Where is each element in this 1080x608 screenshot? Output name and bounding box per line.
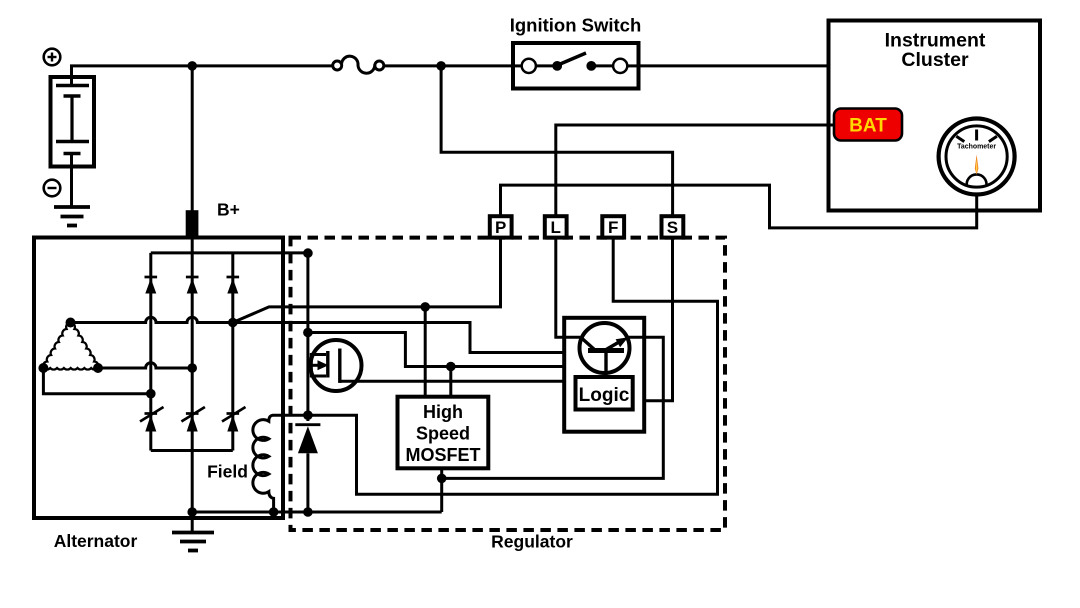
B+ terminal block (186, 210, 199, 238)
phase 2 wire with hop over leg 1 (98, 363, 192, 368)
B+ rail inside regulator (306, 253, 309, 421)
wire S terminal to logic block (644, 238, 672, 401)
phase 3 wire (43, 368, 150, 394)
wire B+ block to rectifier top rail (191, 237, 194, 253)
svg-text:Ignition Switch: Ignition Switch (510, 15, 642, 36)
terminal L (545, 216, 567, 237)
ignition switch SW1 (513, 43, 639, 89)
wire S sense: junction to S terminal (441, 66, 672, 216)
BAT warning lamp (834, 109, 902, 141)
diode D4 (negative avalanche, leg 1) (140, 407, 164, 432)
stator delta winding side 2 (top-right) (71, 323, 99, 369)
svg-text:P: P (495, 218, 506, 237)
field coil L1 (253, 415, 308, 512)
stator delta winding side 3 (bottom) (43, 368, 98, 370)
node: sense tap junction (436, 61, 446, 71)
battery negative terminal symbol (44, 180, 61, 197)
node: phase 2 junction on leg 2 (187, 363, 197, 373)
terminal S (662, 216, 684, 237)
svg-text:Tachometer: Tachometer (957, 142, 996, 151)
wire ground rail up to driver block (440, 468, 443, 512)
wire MOSFET source to logic block (340, 380, 564, 383)
rectifier leg 2 (191, 253, 194, 451)
high speed MOSFET driver block U1 (398, 397, 489, 469)
svg-text:High: High (423, 402, 463, 422)
emitter wire transistor to gate junction (442, 337, 664, 478)
node: delta top vertex (66, 318, 76, 328)
wire battery positive to fusible link (72, 66, 332, 86)
diode D1 (positive, leg 1) (145, 277, 158, 294)
node: phase 3 junction on leg 1 (146, 389, 156, 399)
F monitor wire: F terminal to field junction (308, 238, 718, 495)
svg-text:B+: B+ (217, 200, 240, 220)
node: phase 1 junction on leg 3 (228, 318, 238, 328)
tachometer gauge (939, 119, 1015, 195)
logic box (576, 377, 633, 410)
stator delta winding side 1 (top-left) (43, 323, 71, 369)
ground rail alternator to regulator (192, 511, 442, 514)
svg-text:Cluster: Cluster (901, 49, 969, 71)
wire L terminal to BAT lamp (556, 125, 836, 216)
svg-text:BAT: BAT (849, 116, 887, 137)
node: field coil ground junction (269, 507, 279, 517)
diode D6 (negative avalanche, leg 3) (222, 407, 246, 432)
wire phase tap down to driver block (424, 307, 427, 397)
node: flyback diode ground junction (303, 507, 313, 517)
rectifier leg 1 (149, 253, 152, 451)
node: driver input junction (446, 362, 456, 372)
wire P terminal to tachometer (501, 185, 977, 228)
phase 1 wire with hops over legs 1 and 2 (71, 317, 233, 322)
svg-text:Alternator: Alternator (54, 531, 138, 551)
supply wire rail to driver input and logic block (308, 333, 564, 367)
MOSFET Q1 (311, 340, 362, 391)
svg-text:S: S (667, 218, 678, 237)
flyback diode D7 (295, 425, 320, 512)
ground (battery) (54, 207, 90, 226)
battery B1 (51, 77, 95, 167)
wire ignition switch to instrument cluster (639, 64, 831, 67)
diode D5 (negative avalanche, leg 2) (181, 407, 205, 432)
node: phase tap to driver (420, 302, 430, 312)
alternator enclosure (34, 238, 283, 519)
diode D2 (positive, leg 2) (186, 277, 199, 294)
wire fusible link to ignition switch (384, 64, 513, 67)
logic block enclosure U2 (564, 318, 644, 432)
rectifier bottom rail (151, 449, 233, 452)
ground (alternator) (172, 533, 214, 551)
node: battery / B+ tap junction (187, 61, 197, 71)
regulator enclosure (dashed) (291, 238, 726, 530)
wire B+ drop from battery junction (191, 66, 194, 211)
svg-text:F: F (608, 218, 618, 237)
svg-text:L: L (551, 218, 561, 237)
rectifier top rail (151, 251, 308, 254)
base drive wire from phase node to logic block (233, 323, 564, 353)
node: B+ rail top junction (303, 248, 313, 258)
terminal P (490, 216, 512, 237)
node: field / flyback / F-monitor junction (303, 410, 313, 420)
node: gate drive junction (437, 474, 447, 484)
fusible link F1 (333, 56, 384, 73)
rectifier leg 3 (231, 253, 234, 451)
node: bridge ground junction (187, 507, 197, 517)
svg-text:Regulator: Regulator (491, 532, 573, 552)
phase/P wire from stator to P terminal (233, 216, 501, 322)
wire battery negative to ground (70, 154, 73, 208)
svg-text:Speed: Speed (416, 424, 470, 444)
wire driver input junction down to driver block (449, 367, 452, 398)
svg-text:Logic: Logic (579, 385, 630, 406)
wire L terminal to transistor collector (556, 238, 580, 338)
battery positive terminal symbol (44, 49, 61, 66)
instrument cluster enclosure (829, 21, 1041, 211)
node: B+ rail tap to logic supply (303, 328, 313, 338)
wire rectifier to alternator ground (191, 451, 194, 534)
node: delta right vertex (93, 363, 103, 373)
node: delta left vertex (38, 363, 48, 373)
diode D3 (positive, leg 3) (227, 277, 240, 294)
svg-text:Field: Field (207, 462, 248, 482)
terminal F (602, 216, 624, 237)
transistor Q2 (580, 323, 630, 378)
svg-text:MOSFET: MOSFET (406, 445, 481, 465)
